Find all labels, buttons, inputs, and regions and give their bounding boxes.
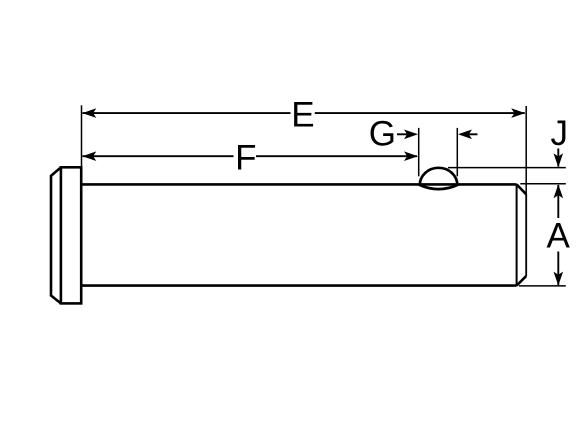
dimension G arrow line [397, 133, 410, 135]
dimension E line left segment [83, 112, 291, 114]
svg-text:G: G [369, 114, 396, 153]
svg-text:A: A [547, 216, 571, 255]
dimension F line right segment [256, 155, 417, 157]
dimension F right arrowhead [404, 151, 418, 161]
pin head chamfered back [51, 167, 61, 303]
dimension G left-pointing arrowhead [458, 130, 472, 140]
pin top extension line (J bottom / A top) [520, 183, 566, 185]
svg-text:J: J [551, 114, 569, 153]
detent dome [420, 168, 458, 189]
dimension E left arrowhead [82, 108, 96, 118]
svg-text:E: E [291, 95, 314, 134]
pin body bottom edge [81, 284, 516, 287]
dimension A line lower segment [557, 252, 559, 286]
pin right end face [525, 194, 527, 276]
dimension E right arrowhead [511, 108, 525, 118]
pin right end top chamfer [517, 184, 527, 194]
dome extension line left [418, 128, 420, 176]
pin right end chamfer edge line [516, 184, 518, 285]
pin body top edge [81, 183, 516, 186]
dimension J down arrow line [557, 149, 559, 167]
pin bottom extension line (A bottom) [519, 285, 566, 287]
pin head front face [61, 167, 81, 303]
dimension F line left segment [83, 155, 234, 157]
dimension A up arrowhead [554, 184, 564, 198]
dimension E extension line right [525, 106, 527, 194]
pin right end bottom chamfer [517, 276, 527, 286]
dimension G opposing arrow tail [465, 133, 478, 135]
dimension E extension line left [81, 105, 83, 167]
dome extension line right [456, 128, 458, 176]
dimension J top extension line [448, 167, 566, 169]
dimension J down arrowhead [554, 153, 564, 167]
dimension F left arrowhead [82, 151, 96, 161]
dimension E line right segment [315, 112, 525, 114]
dimension G right-pointing arrowhead [404, 130, 418, 140]
dimension A down arrowhead [554, 272, 564, 286]
svg-text:F: F [235, 139, 256, 178]
dimension A line upper segment [557, 185, 559, 218]
